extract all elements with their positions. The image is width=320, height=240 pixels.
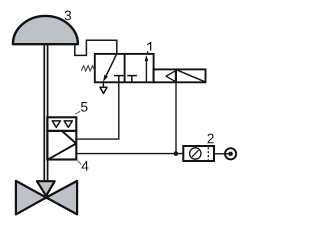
- amplifier diagonal b: [48, 144, 76, 160]
- wire output line to regulator: [77, 153, 184, 155]
- solenoid diagonal: [177, 70, 205, 82]
- right position: up arrow: [145, 55, 149, 81]
- label 1 leader: [147, 51, 149, 54]
- nozzle triangle a: [52, 121, 60, 127]
- valve plug: [37, 181, 55, 196]
- left position: flow diagonal with arrow: [103, 54, 117, 82]
- pilot triangle: [166, 71, 176, 82]
- pressure source dot: [228, 152, 232, 156]
- amplifier diagonal a: [62, 131, 76, 143]
- seat junction blob: [44, 194, 49, 199]
- label 4: [82, 161, 89, 171]
- label 1: [147, 42, 151, 51]
- label 3: [65, 11, 72, 21]
- label 5 leader: [75, 111, 80, 114]
- exhaust triangle: [100, 87, 107, 93]
- wire pilot supply down to junction: [175, 82, 177, 153]
- pressure source circle: [225, 148, 236, 159]
- valve body left triangle: [16, 181, 46, 215]
- pilot / solenoid box: [154, 69, 206, 82]
- gauge circle: [190, 148, 201, 159]
- diaphragm actuator dome 3: [13, 16, 78, 44]
- regulator dashed line: [207, 147, 209, 160]
- label 5: [81, 102, 88, 112]
- label 2: [207, 134, 213, 144]
- spring on valve left: [81, 66, 94, 71]
- valve body right triangle: [46, 181, 77, 215]
- solenoid valve 1 body: [95, 54, 154, 82]
- pilot box divider: [175, 69, 177, 82]
- regulator box 2: [183, 146, 214, 161]
- positioner upper box 5: [47, 117, 76, 131]
- exhaust stub: [102, 82, 104, 87]
- positioner lower box 4: [47, 131, 76, 160]
- wire regulator to source: [214, 153, 230, 155]
- nozzle triangle b: [64, 121, 72, 127]
- wire dome to pilot valve (staircase): [75, 40, 117, 55]
- wire valve output down to positioner: [77, 82, 119, 139]
- left position: blocked port T: [114, 76, 124, 83]
- label 4 leader: [78, 161, 82, 165]
- junction: [174, 151, 179, 156]
- actuator stem (double line): [43, 45, 45, 181]
- gauge needle: [192, 150, 199, 157]
- right position: blocked port T: [127, 76, 137, 83]
